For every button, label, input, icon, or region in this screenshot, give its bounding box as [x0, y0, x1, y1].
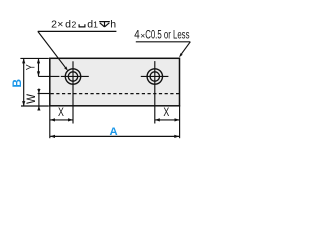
hole left centerline vertical	[72, 61, 74, 123]
dimension A line	[50, 135, 179, 137]
dimension W arrow top	[37, 89, 40, 93]
hole right centerline vertical	[154, 61, 156, 123]
dimension X right arrow left	[155, 118, 160, 121]
counterbore symbol	[79, 24, 85, 27]
bottom extension line	[21, 105, 49, 107]
depth symbol bar	[99, 21, 110, 23]
callout 2 leader	[181, 42, 191, 55]
dimension X left arrow right	[68, 118, 73, 121]
counterbore hole left outer	[65, 69, 80, 84]
dimension X left line	[50, 119, 73, 121]
top extension line	[20, 57, 48, 59]
dimension B arrow top	[22, 58, 25, 63]
dimension A arrow right	[174, 135, 179, 138]
dimension W arrow bottom	[37, 106, 40, 110]
svg-text:2: 2	[51, 18, 57, 30]
svg-text:C0.5 or Less: C0.5 or Less	[145, 28, 189, 42]
callout 2 underline	[136, 41, 191, 43]
dimension X right arrow right	[175, 118, 180, 121]
hole right inner	[150, 72, 159, 81]
svg-text:W: W	[25, 94, 38, 104]
dimension Y line	[38, 59, 40, 77]
svg-text:A: A	[110, 126, 118, 138]
svg-text:h: h	[110, 18, 116, 30]
plate body	[50, 58, 180, 106]
depth symbol arrowhead left	[100, 23, 105, 27]
dimension X left arrow left	[50, 118, 55, 121]
svg-text:X: X	[58, 107, 64, 119]
dimension Y arrow bottom	[37, 71, 40, 76]
counterbore hole right outer	[147, 69, 162, 84]
dimension B arrow bottom	[22, 101, 25, 106]
svg-text:4: 4	[134, 28, 140, 42]
plate right edge extension below	[179, 105, 181, 138]
svg-text:d: d	[65, 18, 71, 30]
hole right centerline horizontal	[141, 75, 169, 77]
svg-text:B: B	[10, 79, 24, 88]
svg-text:2: 2	[72, 19, 77, 29]
depth symbol arrowhead right	[105, 23, 110, 27]
dashed line extension left	[38, 93, 50, 95]
svg-text:1: 1	[93, 19, 98, 29]
dimension B line	[23, 59, 25, 106]
hidden dashed line	[51, 93, 179, 95]
hole left centerline horizontal	[38, 75, 59, 77]
dimension Y arrow top	[37, 58, 40, 63]
callout 1 underline	[38, 30, 117, 32]
plate left edge extension below	[49, 105, 51, 138]
hole left centerline horizontal second segment	[61, 75, 89, 77]
dimension X right line	[155, 119, 179, 121]
hole left inner	[68, 72, 77, 81]
depth symbol stem	[104, 22, 106, 27]
callout 1 arrowhead	[64, 67, 68, 71]
callout 2 arrowhead	[179, 53, 183, 57]
dimension W line with outside arrows	[38, 89, 40, 111]
callout 1 leader	[38, 31, 67, 68]
svg-text:×: ×	[57, 18, 63, 30]
svg-text:X: X	[163, 107, 169, 119]
dimension A arrow left	[50, 135, 55, 138]
svg-text:Y: Y	[24, 64, 38, 70]
